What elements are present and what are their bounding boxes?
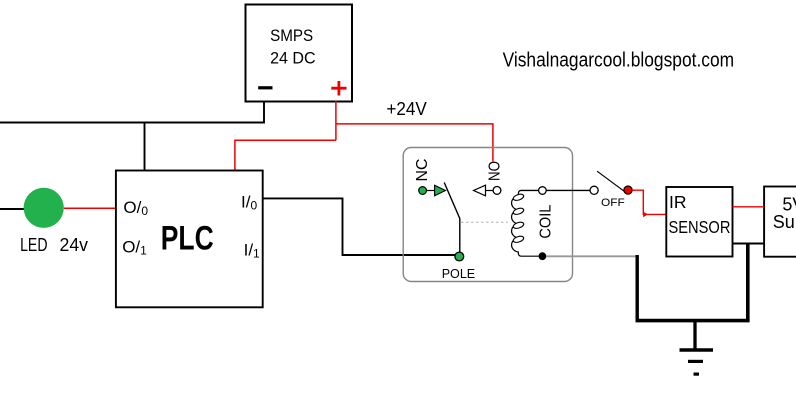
coil loop ellipse 3 (513, 221, 525, 229)
minus terminal of SMPS (258, 86, 272, 89)
relay K1 enclosure (403, 148, 572, 282)
svg-text:POLE: POLE (442, 266, 476, 281)
coil L1 winding (512, 190, 540, 256)
LED (green indicator lamp) (24, 188, 64, 228)
wire: red IR sensor to 5V supply (733, 206, 765, 208)
NO contact circle (493, 187, 501, 195)
NO contact arrow (474, 185, 486, 196)
svg-text:Vishalnagarcool.blogspot.com: Vishalnagarcool.blogspot.com (503, 50, 734, 72)
dashed actuator link (461, 221, 508, 223)
ground bar 3 (694, 373, 700, 376)
coil loop ellipse 2 (513, 207, 525, 215)
svg-text:LED: LED (20, 234, 47, 255)
coil bottom terminal dot (539, 252, 547, 260)
wire: red from SMPS plus down (335, 101, 337, 140)
wire: SMPS minus down and left to edge (0, 102, 264, 123)
PLC box (116, 171, 263, 308)
SMPS power supply box (246, 5, 353, 102)
svg-text:PLC: PLC (161, 219, 214, 257)
ground bar 2 (688, 360, 703, 363)
NC contact dot (419, 187, 427, 195)
plus terminal of SMPS (331, 81, 346, 96)
wire: red branch to PLC top (235, 140, 336, 170)
OFF switch red dot (624, 186, 632, 194)
wire: PLC I/0 to relay pole (263, 198, 455, 255)
ground stem (693, 321, 696, 350)
5V supply box (764, 187, 796, 257)
svg-text:SENSOR: SENSOR (669, 217, 731, 237)
OFF switch terminal circle (590, 186, 598, 194)
svg-text:COIL: COIL (537, 205, 554, 239)
svg-text:IR: IR (669, 192, 687, 212)
NO contact link (486, 190, 494, 192)
svg-text:NC: NC (414, 159, 431, 182)
svg-text:Sup: Sup (773, 212, 796, 232)
coil loop ellipse 4 (513, 235, 525, 243)
wire: gray coil bottom to ground bus (546, 255, 637, 257)
svg-text:SMPS: SMPS (270, 26, 313, 45)
wire: red OFF switch to IR sensor (632, 190, 666, 214)
ground bus right vertical (746, 244, 750, 321)
OFF switch blade (597, 171, 625, 192)
wire: red +24V rail to NO terminal (336, 124, 493, 162)
coil top terminal circle (539, 187, 547, 195)
coil loop ellipse 1 (513, 193, 525, 201)
svg-text:24 DC: 24 DC (270, 49, 316, 68)
IR sensor box (666, 187, 732, 257)
NC contact arrow (435, 185, 446, 196)
wire: left edge to LED (0, 208, 25, 210)
switch blade (444, 183, 460, 253)
svg-text:NO: NO (487, 161, 504, 181)
svg-text:24v: 24v (60, 234, 89, 255)
wire: black IR sensor to 5V supply (733, 243, 765, 245)
wire: red LED to PLC O/0 (64, 207, 116, 209)
wire: coil top to OFF switch (521, 189, 590, 191)
NC contact link (427, 190, 437, 192)
svg-text:OFF: OFF (601, 197, 625, 209)
pole dot (455, 252, 464, 261)
svg-text:+24V: +24V (386, 99, 426, 119)
ground bus left vertical (636, 255, 639, 321)
ground bar 1 (680, 348, 714, 351)
red arrowhead at corner (643, 212, 648, 218)
wire: vertical drop to PLC top (144, 123, 146, 171)
ground bus horizontal (636, 319, 750, 323)
